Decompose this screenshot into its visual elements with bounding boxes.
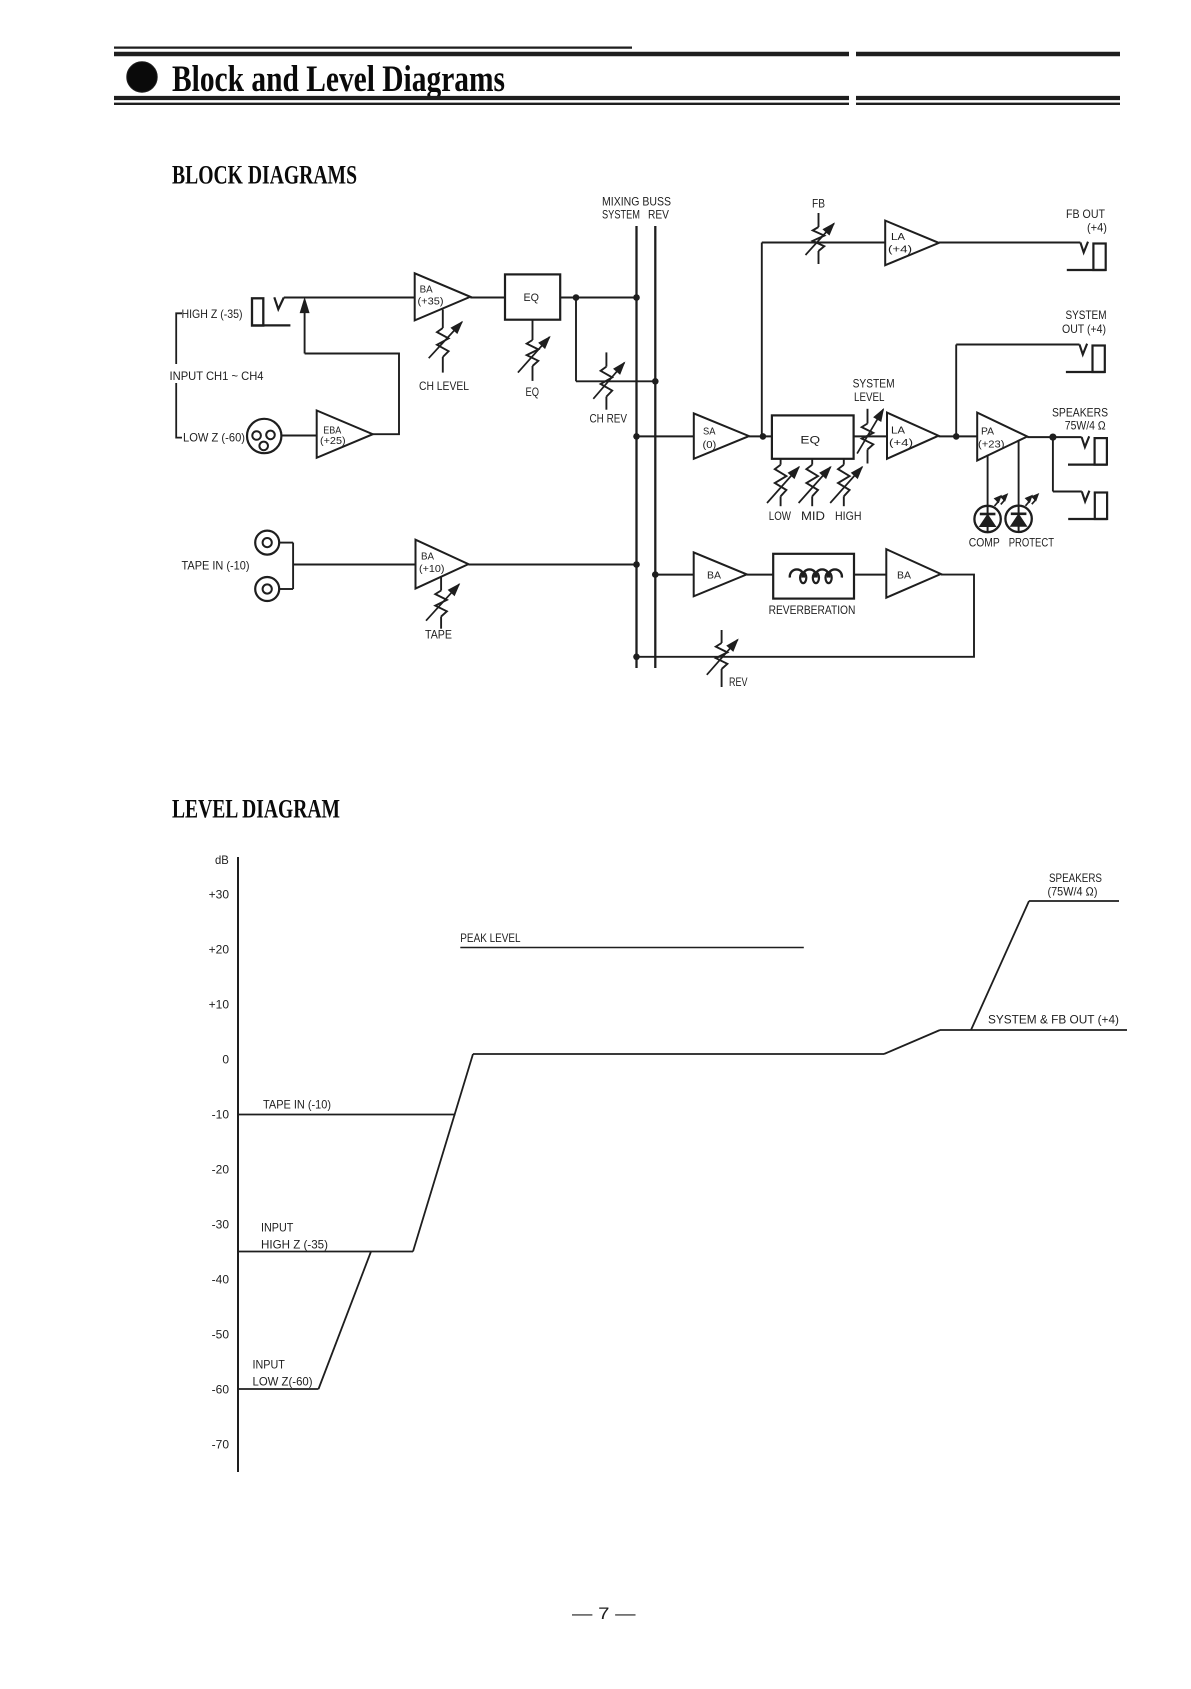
junction rev bus / BA3 [652,571,659,578]
axis label +30 [209,888,230,902]
label SYSTEM OUT (+4) [1062,308,1107,336]
junction system bus / SA input [633,433,640,440]
amplifier BA1 (+35) [415,273,471,320]
amplifier LA1 (+4) [885,221,939,266]
svg-text:+10: +10 [209,998,230,1012]
svg-text:SYSTEM & FB OUT (+4): SYSTEM & FB OUT (+4) [988,1013,1119,1027]
level trace SPEAKERS [1029,900,1119,902]
amplifier BA2 (+10) [416,540,469,589]
svg-text:LEVEL DIAGRAM: LEVEL DIAGRAM [172,794,340,824]
level trace LOW Z [238,1388,319,1390]
potentiometer MID [799,459,831,506]
label LA (+4) FB [888,231,912,256]
svg-text:(+10): (+10) [419,563,445,575]
junction LA2 output [953,433,960,440]
label MIXING BUSS [602,195,671,209]
junction tape / system bus [633,561,640,568]
wire SA output to FB line [762,243,885,437]
junction rev bus / channel [652,378,659,385]
header top thick rule [114,52,1120,57]
axis label -10 [212,1108,230,1122]
label TAPE IN (-10) [182,559,250,573]
section bullet [127,62,157,92]
svg-text:SA: SA [703,426,716,438]
label EQ (box) [524,292,540,304]
label TAPE [425,628,452,642]
label EBA (+25) [320,425,346,447]
label BA (reverb out) [897,570,911,582]
svg-text:CH LEVEL: CH LEVEL [419,379,469,393]
label FB OUT (+4) [1066,207,1107,235]
svg-text:TAPE IN (-10): TAPE IN (-10) [263,1098,331,1112]
label BA (+10) [419,551,445,575]
junction SA output [760,433,767,440]
header bottom thin rule [114,103,1120,105]
label PROTECT [1009,536,1055,550]
wire to SYSTEM OUT [956,345,1079,437]
inductor coil (reverb spring) [790,569,842,583]
svg-text:PA: PA [981,426,994,438]
svg-text:(0): (0) [703,439,717,451]
svg-text:INPUT: INPUT [261,1221,294,1235]
svg-text:SYSTEM: SYSTEM [1066,308,1107,322]
svg-text:SPEAKERS: SPEAKERS [1049,871,1102,885]
svg-text:— 7 —: — 7 — [572,1604,636,1623]
reverberation unit [773,554,854,599]
potentiometer TAPE [426,576,459,629]
axis label +10 [209,998,230,1012]
svg-text:BLOCK DIAGRAMS: BLOCK DIAGRAMS [172,160,357,190]
svg-text:(+4): (+4) [889,437,913,449]
svg-text:MIXING BUSS: MIXING BUSS [602,195,671,209]
label SPEAKERS (75W/4) [1048,871,1103,899]
svg-text:TAPE: TAPE [425,628,452,642]
svg-text:EQ: EQ [800,435,820,447]
svg-text:-20: -20 [212,1163,230,1177]
wire LA2 to PA [939,435,978,437]
amplifier BA4 [886,549,941,598]
svg-text:HIGH Z (-35): HIGH Z (-35) [182,307,243,321]
svg-text:SPEAKERS: SPEAKERS [1052,406,1108,420]
connector SYSTEM OUT jack [1066,344,1105,372]
label INPUT LOW Z [253,1358,313,1389]
wire EQ2 to LA2 [854,435,887,437]
svg-text:SYSTEM: SYSTEM [602,208,640,222]
svg-text:BA: BA [707,570,721,582]
svg-text:(75W/4 Ω): (75W/4 Ω) [1048,885,1098,899]
svg-text:(+35): (+35) [418,296,444,308]
svg-text:LA: LA [891,231,905,243]
svg-text:INPUT: INPUT [253,1358,286,1372]
label COMP [969,536,1000,550]
label SYSTEM LEVEL [853,377,895,405]
potentiometer HIGH [830,459,862,506]
wire BA2 to system bus [468,564,636,566]
svg-text:Block and Level Diagrams: Block and Level Diagrams [172,59,505,100]
potentiometer CH LEVEL [429,310,462,373]
svg-text:REV: REV [729,675,748,689]
svg-text:LEVEL: LEVEL [854,390,885,404]
label PEAK LEVEL [460,931,521,945]
label SYSTEM & FB OUT (+4) [988,1013,1119,1027]
axis label -60 [212,1383,230,1397]
label CH LEVEL [419,379,469,393]
svg-text:BA: BA [421,551,434,563]
svg-text:-50: -50 [212,1328,230,1342]
amplifier BA3 [694,552,747,596]
label SPEAKERS 75W/4ohm [1052,406,1108,433]
label REV (bus) [648,208,669,222]
svg-text:LOW: LOW [769,509,792,523]
connector FB OUT jack [1067,242,1106,270]
potentiometer FB [806,213,835,264]
wire EQ1 to system bus [560,297,636,299]
axis label -40 [212,1273,230,1287]
amplifier SA (0) [694,413,749,458]
indicator COMP [974,494,1007,532]
svg-text:-40: -40 [212,1273,230,1287]
indicator PROTECT [1005,494,1038,532]
axis label -50 [212,1328,230,1342]
svg-text:(+4): (+4) [888,244,912,256]
wire PA to COMP led [987,455,989,506]
wire reverberation to BA4 [854,574,886,576]
svg-text:+30: +30 [209,888,230,902]
label HIGH [835,509,862,523]
label LOW [769,509,792,523]
level trace SYSTEM FB OUT [940,1029,1127,1031]
wire rev bus (vertical) [654,226,656,668]
level trace BA gain [413,1054,473,1252]
svg-text:TAPE IN (-10): TAPE IN (-10) [182,559,250,573]
svg-text:BA: BA [897,570,911,582]
page title [172,59,505,100]
label BA (reverb in) [707,570,721,582]
header bottom thick rule [114,96,1120,100]
label CH REV [590,412,628,426]
svg-text:(+4): (+4) [1087,221,1107,235]
junction speakers [1049,434,1056,441]
potentiometer CH REV [593,352,624,409]
node arrow (LOW Z join) [300,299,309,354]
header top thin rule [114,46,632,48]
label REVERBERATION [769,603,856,617]
svg-text:OUT (+4): OUT (+4) [1062,322,1106,336]
connector SPEAKER jack 2 [1068,491,1107,519]
label EQ (box 2) [800,435,820,447]
subtitle BLOCK DIAGRAMS [172,160,357,190]
peak level line [460,947,804,949]
wire system bus (vertical) [635,226,637,668]
label FB [812,197,825,211]
wire PA to PROTECT led [1018,440,1020,505]
potentiometer REV [707,630,738,687]
wire reverb return [637,575,975,657]
wire EBA to channel input [305,354,399,435]
label LOW Z (-60) [183,431,245,445]
label LA (+4) system [889,425,913,450]
svg-text:FB OUT: FB OUT [1066,207,1106,221]
wire SA to EQ2 [749,435,772,437]
amplifier LA2 (+4) [887,413,939,459]
svg-text:-70: -70 [212,1438,230,1452]
potentiometer SYSTEM LEVEL [857,409,883,464]
junction reverb return / system bus [633,654,640,661]
XLR connector (LOW Z input) [247,419,281,453]
svg-text:dB: dB [215,853,229,867]
svg-text:LOW Z (-60): LOW Z (-60) [183,431,245,445]
wire channel rev send [576,298,655,382]
wire tape jacks join [279,543,415,589]
junction system bus / channel [633,294,640,301]
label EQ (pot) [526,385,540,399]
svg-text:COMP: COMP [969,536,1000,550]
axis label 0 [222,1053,229,1067]
label INPUT CH1 ~ CH4 [170,369,264,383]
svg-text:INPUT CH1 ~ CH4: INPUT CH1 ~ CH4 [170,369,264,383]
wire LA1 to FB OUT [939,242,1081,244]
junction EQ1 output [573,294,580,301]
RCA jack 1 [255,531,279,555]
subtitle LEVEL DIAGRAM [172,794,340,824]
amplifier PA (+23) [977,413,1027,461]
level trace mix bus [473,1053,884,1055]
level trace to +4 [884,1030,940,1054]
level axis [237,857,239,1472]
svg-text:FB: FB [812,197,825,211]
level trace TAPE IN [238,1114,456,1116]
label INPUT HIGH Z [261,1221,328,1252]
svg-text:0: 0 [222,1053,229,1067]
label HIGH Z (-35) [182,307,243,321]
page number [572,1604,636,1623]
svg-text:-10: -10 [212,1108,230,1122]
svg-text:75W/4 Ω: 75W/4 Ω [1065,419,1106,433]
label MID [801,509,825,523]
equalizer EQ2 [772,415,854,458]
wire XLR to EBA [281,435,316,437]
potentiometer EQ [518,320,550,381]
level trace PA gain [971,901,1029,1030]
level trace HIGH Z [238,1251,413,1253]
wire rev bus to BA3 [655,574,693,576]
wire system bus to SA [637,435,694,437]
connector SPEAKER jack 1 [1068,436,1107,464]
svg-text:(+23): (+23) [978,439,1005,451]
svg-text:HIGH: HIGH [835,509,862,523]
svg-text:PEAK LEVEL: PEAK LEVEL [460,931,521,945]
label BA (+35) [418,284,444,308]
phone jack J1 (HIGH Z input) [252,297,290,325]
svg-text:EQ: EQ [524,292,540,304]
svg-text:SYSTEM: SYSTEM [853,377,895,391]
svg-text:CH REV: CH REV [590,412,628,426]
label TAPE IN (-10) level [263,1098,331,1112]
svg-text:-30: -30 [212,1218,230,1232]
input bracket CH1-CH4 [176,313,182,437]
axis label -30 [212,1218,230,1232]
svg-text:EQ: EQ [526,385,540,399]
axis label +20 [209,943,230,957]
svg-text:REV: REV [648,208,669,222]
label SYSTEM (bus) [602,208,640,222]
svg-text:+20: +20 [209,943,230,957]
svg-text:REVERBERATION: REVERBERATION [769,603,856,617]
label SA (0) [703,426,717,452]
wire PA to speakers [1027,436,1081,438]
RCA jack 2 [255,577,279,601]
svg-text:LA: LA [891,425,905,437]
svg-text:MID: MID [801,509,825,523]
amplifier EBA (+25) [317,411,373,458]
svg-text:LOW Z(-60): LOW Z(-60) [253,1375,313,1389]
wire jack to BA1 [284,297,415,299]
axis label -20 [212,1163,230,1177]
axis label -70 [212,1438,230,1452]
label PA (+23) [978,426,1005,451]
wire BA1 to EQ1 [470,297,505,299]
equalizer EQ1 [505,274,560,319]
level trace EBA gain [319,1252,372,1390]
potentiometer LOW [767,459,799,506]
label REV (pot) [729,675,748,689]
svg-text:(+25): (+25) [320,435,346,447]
svg-text:HIGH Z (-35): HIGH Z (-35) [261,1238,328,1252]
wire BA3 to reverberation [747,574,773,576]
label dB [215,853,229,867]
wire to speaker jack 2 [1053,437,1082,491]
svg-text:BA: BA [420,284,433,296]
svg-text:PROTECT: PROTECT [1009,536,1055,550]
svg-text:-60: -60 [212,1383,230,1397]
